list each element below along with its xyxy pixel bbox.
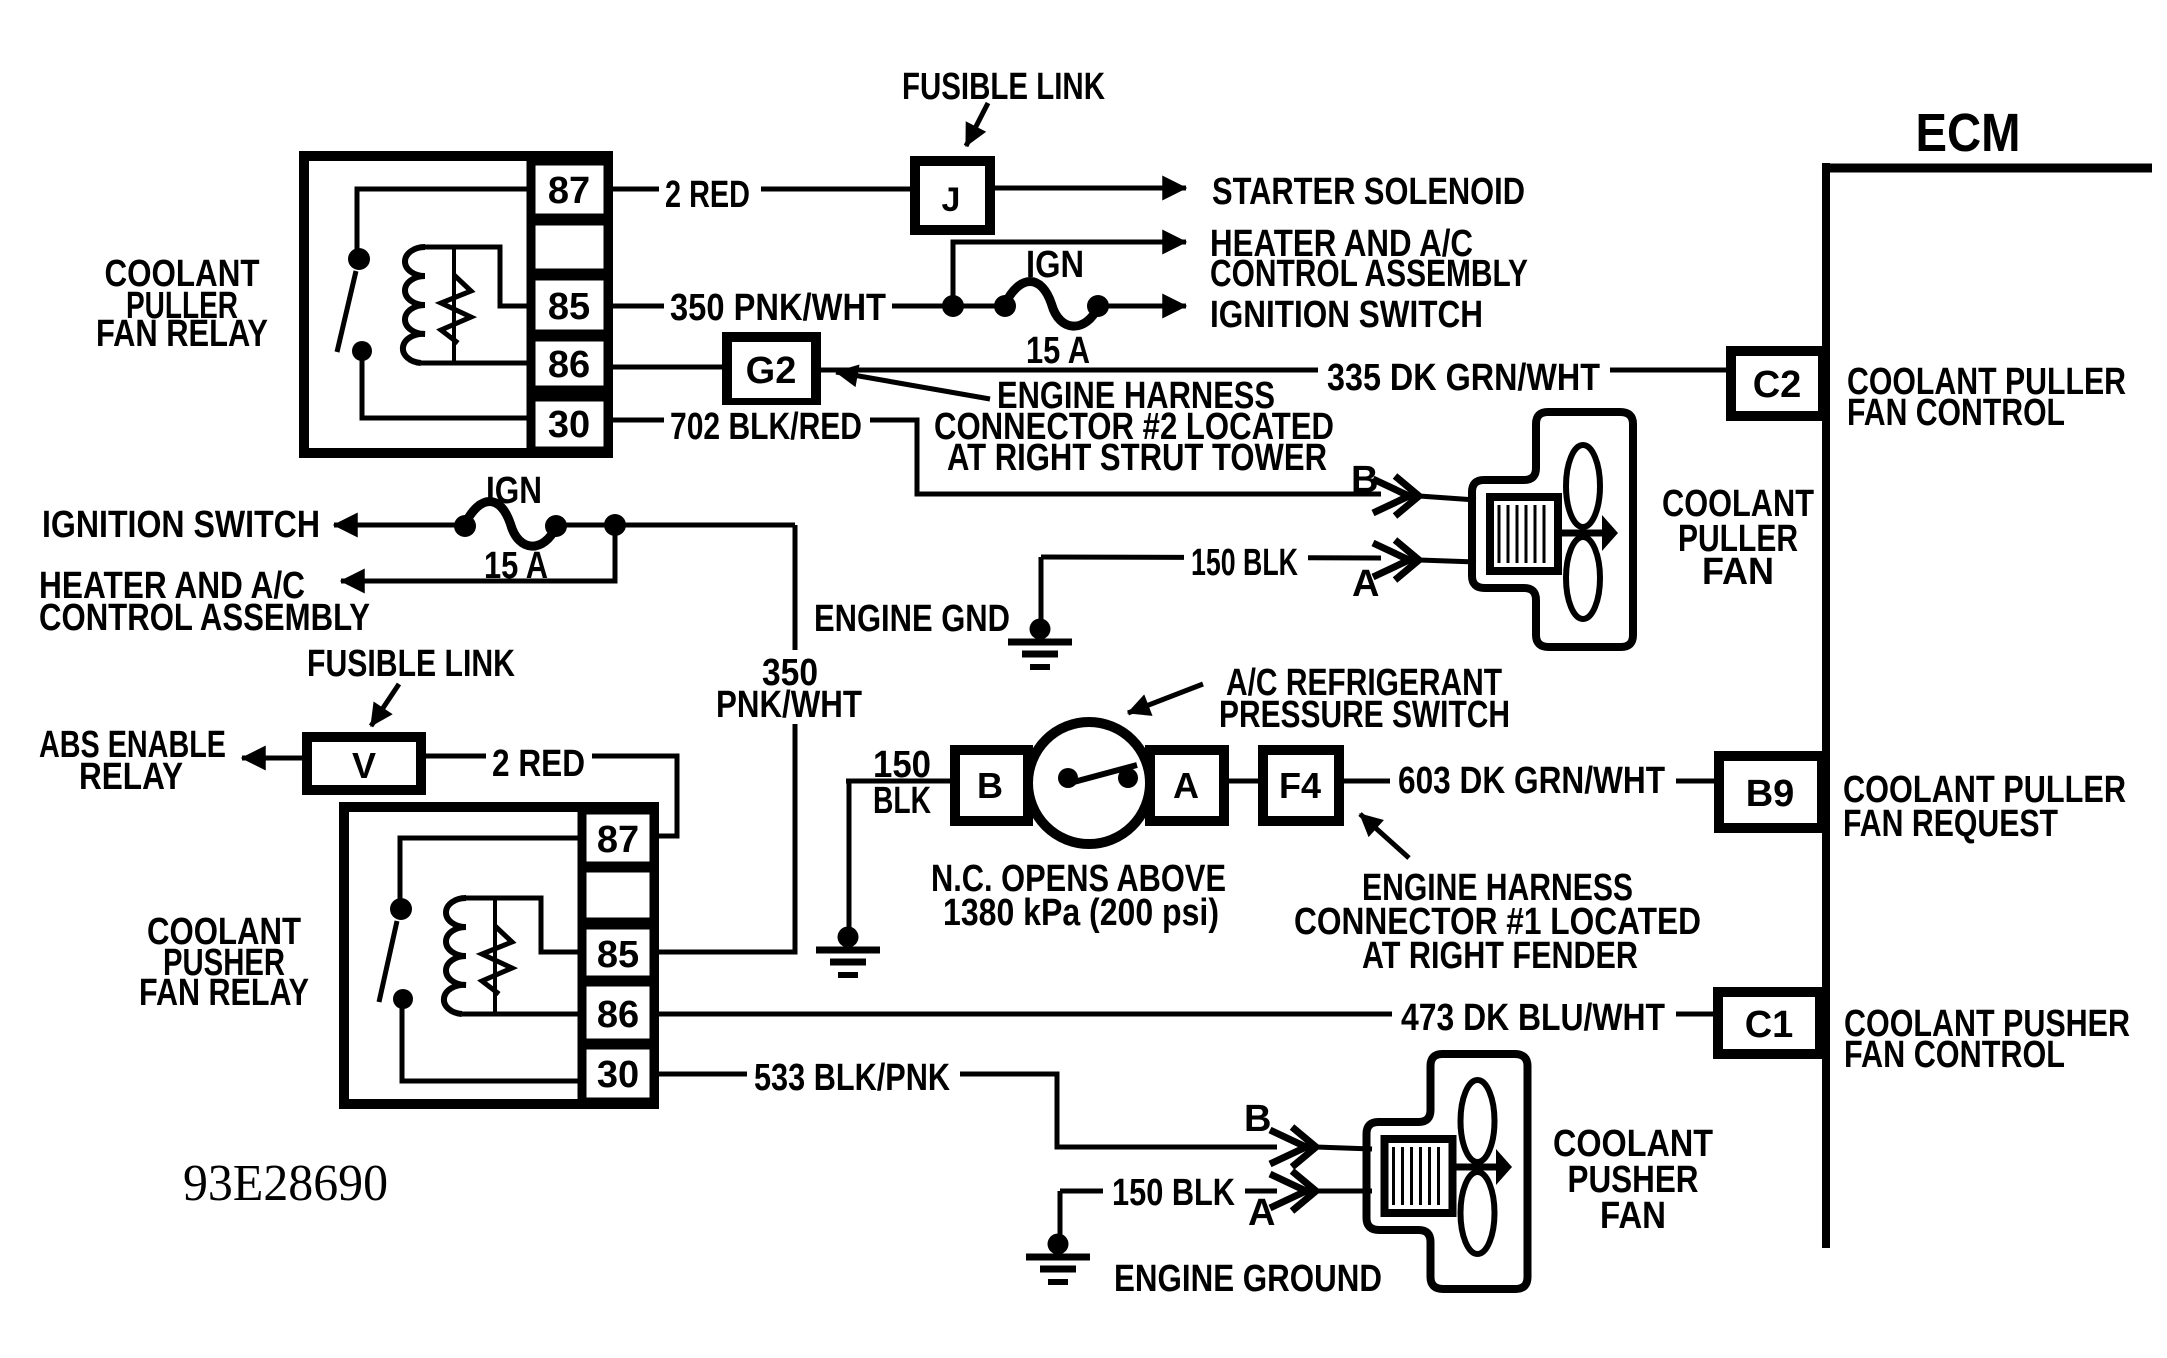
ground symbol below pressure switch: [838, 927, 859, 948]
wire label 350 PNK/WHT (vertical): [710, 650, 870, 724]
svg-text:IGN: IGN: [486, 470, 542, 512]
wire fuse to IGNITION SWITCH with arrow: [1098, 304, 1186, 309]
fusible link J box: [915, 161, 990, 230]
wire label 533 BLK/PNK: [747, 1058, 960, 1096]
svg-text:702 BLK/RED: 702 BLK/RED: [670, 406, 862, 448]
relay K2 switch contact bottom: [393, 989, 413, 1009]
A/C refrigerant pressure switch circle: [1028, 722, 1150, 844]
fusible link V box: [307, 737, 421, 790]
wire 2 RED from V to pusher relay pin 87: [421, 756, 677, 836]
svg-text:G2: G2: [746, 350, 797, 392]
svg-text:85: 85: [548, 286, 590, 328]
relay K1 pin 86 box: [531, 337, 608, 390]
wire label 350 PNK/WHT: [664, 290, 892, 324]
wire label 150 BLK (puller): [1184, 541, 1308, 579]
wire to IGNITION SWITCH (left) with arrow: [334, 523, 465, 528]
relay K1 pin 30 box: [531, 397, 608, 451]
wire branch to HEATER AND A/C (left) with arrow: [341, 525, 615, 581]
pressure switch contact right: [1118, 768, 1138, 788]
svg-text:15 A: 15 A: [1026, 330, 1090, 372]
junction dot on 350 PNK/WHT: [942, 295, 964, 317]
svg-text:473 DK BLU/WHT: 473 DK BLU/WHT: [1401, 997, 1665, 1039]
svg-text:C1: C1: [1745, 1004, 1794, 1046]
ECM vertical boundary line: [1822, 163, 1830, 1248]
svg-text:335 DK GRN/WHT: 335 DK GRN/WHT: [1327, 357, 1600, 399]
svg-text:B9: B9: [1746, 773, 1795, 815]
pressure switch contact left: [1058, 768, 1078, 788]
relay K2 switch contact top: [390, 898, 412, 920]
relay K1 COOLANT PULLER FAN RELAY outer box: [304, 156, 608, 453]
fuse IGN 15A (left): [454, 515, 476, 537]
svg-text:85: 85: [597, 934, 639, 976]
wire connector A to puller fan: [1419, 560, 1476, 562]
svg-text:1380 kPa (200 psi): 1380 kPa (200 psi): [943, 892, 1219, 934]
wire V to ABS ENABLE RELAY with arrow: [242, 756, 307, 761]
svg-text:FAN REQUEST: FAN REQUEST: [1843, 803, 2058, 845]
relay K1 coil top connection to pin85: [425, 247, 531, 306]
coolant puller fan housing outline: [1472, 412, 1633, 647]
svg-text:RELAY: RELAY: [79, 756, 183, 798]
relay K2 pin blank box: [582, 868, 654, 922]
relay K1 pin blank box: [531, 221, 608, 273]
svg-text:350 PNK/WHT: 350 PNK/WHT: [670, 287, 886, 329]
relay K1 coil chord line: [452, 249, 456, 362]
wire 150 BLK to connector A (puller fan): [1041, 557, 1381, 558]
wire J to STARTER SOLENOID with arrow: [989, 186, 1186, 191]
svg-text:2 RED: 2 RED: [665, 174, 750, 216]
relay K1 switch contact top: [348, 248, 370, 270]
relay K1 pin 87 box: [531, 161, 608, 218]
relay K1 switch contact bottom: [352, 341, 372, 361]
wire 473 DK BLU/WHT from pin 86 to C1: [654, 1012, 1718, 1017]
relay K2 coil bottom connection to pin86: [462, 1012, 582, 1017]
svg-text:CONTROL ASSEMBLY: CONTROL ASSEMBLY: [1210, 253, 1528, 295]
relay K2 internal wire pin87 to switch: [400, 838, 582, 901]
relay K2 pin 86 box: [582, 982, 654, 1043]
wire label 335 DK GRN/WHT: [1318, 352, 1610, 396]
relay K1 coil zigzag: [441, 275, 471, 343]
wire label 473 DK BLU/WHT: [1392, 994, 1676, 1038]
wire 150 BLK to connector A (pusher fan): [1060, 1189, 1277, 1194]
svg-text:B: B: [1244, 1098, 1271, 1140]
relay K2 COOLANT PUSHER FAN RELAY outer box: [344, 807, 654, 1104]
svg-text:30: 30: [597, 1054, 639, 1096]
svg-text:FAN: FAN: [1600, 1195, 1666, 1237]
wire label 603 DK GRN/WHT: [1390, 760, 1676, 802]
svg-text:2 RED: 2 RED: [492, 743, 585, 785]
wire 150 BLK from ground to pressure switch B: [846, 779, 955, 784]
svg-text:B: B: [977, 765, 1003, 806]
wire connector B to pusher fan: [1316, 1147, 1372, 1149]
relay K1 internal wire pin87 to switch: [357, 189, 531, 252]
wire label 150 BLK (pusher): [1103, 1171, 1245, 1209]
coolant puller fan blade top: [1566, 445, 1600, 527]
svg-text:FUSIBLE LINK: FUSIBLE LINK: [307, 643, 515, 685]
wire 2 RED from pin 87 to fusible link J: [608, 187, 916, 192]
annotation arrow to F4 (engine harness connector #1): [1360, 814, 1409, 858]
ECM connector C1 box: [1718, 992, 1820, 1054]
wire 603 DK GRN/WHT from F4 to B9: [1338, 779, 1719, 784]
svg-text:533 BLK/PNK: 533 BLK/PNK: [754, 1057, 950, 1099]
wire label 2 RED (bottom): [486, 740, 592, 778]
svg-text:PNK/WHT: PNK/WHT: [716, 684, 862, 726]
svg-text:CONTROL ASSEMBLY: CONTROL ASSEMBLY: [39, 597, 370, 639]
coolant pusher fan blade bottom: [1461, 1172, 1495, 1254]
svg-text:ENGINE GROUND: ENGINE GROUND: [1114, 1258, 1382, 1300]
relay K2 coil chord line: [493, 900, 497, 1013]
wire down to ground (pressure switch): [847, 781, 852, 930]
relay K1 coil scallop winding: [403, 247, 425, 363]
annotation arrow to pressure switch: [1128, 684, 1203, 713]
svg-text:IGN: IGN: [1026, 244, 1084, 286]
inline connector A chevrons (puller fan): [1373, 540, 1419, 580]
inline connector A chevrons (pusher fan): [1270, 1171, 1316, 1211]
svg-text:30: 30: [548, 404, 590, 446]
connector F4 box: [1263, 750, 1339, 821]
wire label 2 RED: [659, 172, 761, 212]
svg-text:603 DK GRN/WHT: 603 DK GRN/WHT: [1398, 760, 1665, 802]
svg-text:FAN CONTROL: FAN CONTROL: [1844, 1034, 2065, 1076]
svg-text:86: 86: [597, 994, 639, 1036]
ground symbol ENGINE GROUND: [1048, 1234, 1069, 1255]
annotation arrow to G2 (engine harness connector #2): [836, 372, 990, 399]
svg-text:V: V: [352, 745, 376, 786]
wire 702 BLK/RED from pin 30 down and right to connector B: [608, 420, 1381, 494]
annotation arrow FUSIBLE LINK to V box: [371, 684, 399, 726]
svg-text:IGNITION SWITCH: IGNITION SWITCH: [42, 504, 320, 546]
svg-text:150 BLK: 150 BLK: [1112, 1172, 1235, 1214]
svg-text:AT RIGHT STRUT TOWER: AT RIGHT STRUT TOWER: [947, 437, 1327, 479]
relay K2 switch blade: [379, 921, 397, 1002]
wire 533 BLK/PNK from pin 30 to connector B (pusher): [654, 1074, 1277, 1147]
relay K2 coil top connection to pin85: [466, 898, 582, 952]
inline connector B chevrons (puller fan): [1373, 476, 1419, 516]
svg-text:STARTER SOLENOID: STARTER SOLENOID: [1212, 171, 1525, 213]
svg-text:A: A: [1352, 563, 1379, 605]
svg-text:PRESSURE SWITCH: PRESSURE SWITCH: [1219, 694, 1510, 736]
relay K1 coil bottom connection to pin86: [421, 361, 531, 366]
ECM connector B9 box: [1719, 756, 1822, 828]
svg-text:ENGINE GND: ENGINE GND: [814, 598, 1010, 640]
svg-text:J: J: [942, 181, 961, 219]
svg-text:FAN RELAY: FAN RELAY: [96, 313, 268, 355]
wire connector B to puller fan: [1419, 496, 1476, 500]
svg-text:87: 87: [597, 819, 639, 861]
pressure switch terminal A box: [1150, 750, 1224, 821]
wire 335 DK GRN/WHT from G2 to C2: [816, 368, 1731, 373]
ECM top boundary line: [1823, 164, 2152, 173]
wire pressure switch A to connector F4: [1221, 779, 1263, 784]
ground symbol ENGINE GND: [1030, 619, 1051, 640]
coolant puller fan axle and arrow: [1558, 530, 1606, 537]
coolant puller fan motor (hatched): [1490, 497, 1558, 571]
pressure switch blade: [1070, 765, 1137, 783]
svg-text:150 BLK: 150 BLK: [1191, 542, 1298, 584]
svg-text:FAN: FAN: [1702, 551, 1774, 593]
svg-text:C2: C2: [1753, 364, 1802, 406]
coolant pusher fan housing outline: [1367, 1054, 1528, 1289]
svg-text:A: A: [1173, 765, 1199, 806]
svg-text:FAN RELAY: FAN RELAY: [139, 972, 309, 1014]
coolant pusher fan motor (hatched): [1385, 1139, 1453, 1213]
ECM connector C2 box: [1731, 351, 1823, 416]
wire pin 86 to connector G2: [608, 365, 727, 370]
svg-text:87: 87: [548, 170, 590, 212]
wire 150 BLK down to engine ground: [1039, 557, 1044, 620]
wire 350 PNK/WHT vertical to pusher relay pin 85: [654, 525, 795, 952]
svg-text:AT RIGHT FENDER: AT RIGHT FENDER: [1362, 935, 1638, 977]
svg-text:86: 86: [548, 344, 590, 386]
svg-text:IGNITION SWITCH: IGNITION SWITCH: [1210, 294, 1483, 336]
wire label 702 BLK/RED: [664, 405, 870, 444]
relay K2 pin 87 box: [582, 810, 654, 866]
svg-text:93E28690: 93E28690: [183, 1155, 388, 1212]
coolant pusher fan blade top: [1461, 1080, 1495, 1162]
relay K2 internal wire switch to pin30: [402, 1003, 582, 1081]
relay K1 switch blade: [337, 271, 356, 352]
svg-text:BLK: BLK: [873, 780, 931, 822]
coolant pusher fan axle and arrow: [1452, 1164, 1500, 1171]
coolant puller fan blade bottom: [1566, 537, 1600, 619]
fuse IGN 15A (top): [994, 295, 1016, 317]
wire fuse to junction and right: [556, 523, 795, 528]
pressure switch terminal B box: [955, 750, 1028, 821]
wire 350 PNK/WHT from pin 85: [608, 304, 1005, 309]
relay K2 coil scallop winding: [444, 898, 466, 1014]
annotation arrow FUSIBLE LINK to J box: [966, 103, 988, 146]
svg-text:A: A: [1248, 1192, 1275, 1234]
relay K1 internal wire switch to pin30: [362, 355, 531, 418]
svg-text:FUSIBLE LINK: FUSIBLE LINK: [902, 66, 1105, 108]
relay K1 pin 85 box: [531, 276, 608, 334]
wire 150 BLK down to engine ground (bottom): [1058, 1191, 1063, 1238]
wire connector A to pusher fan: [1316, 1189, 1372, 1194]
connector G2 box: [727, 337, 816, 403]
relay K2 pin 85 box: [582, 925, 654, 980]
wire branch to HEATER AND A/C (top) with arrow: [953, 242, 1186, 306]
junction dot (left fuse): [604, 514, 626, 536]
relay K2 coil zigzag: [482, 926, 512, 994]
relay K2 pin 30 box: [582, 1045, 654, 1102]
svg-text:ECM: ECM: [1916, 103, 2021, 163]
svg-text:FAN CONTROL: FAN CONTROL: [1847, 392, 2065, 434]
svg-text:F4: F4: [1279, 765, 1321, 806]
inline connector B chevrons (pusher fan): [1270, 1127, 1316, 1167]
